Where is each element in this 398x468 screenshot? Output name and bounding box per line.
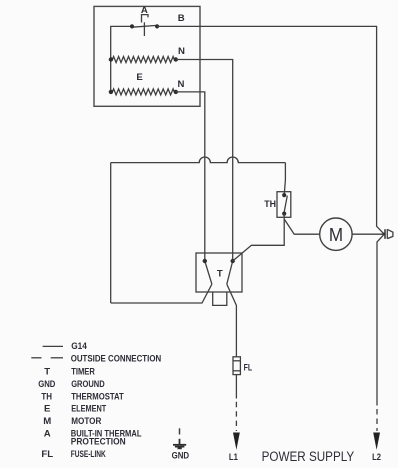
svg-text:G14: G14 [71,341,87,352]
svg-text:THERMOSTAT: THERMOSTAT [71,391,124,402]
wire: L2 dashed outside connection [376,409,378,431]
ground connection dashed stub [179,428,181,434]
wire: TH bottom to timer right contact [233,214,285,261]
ground symbol [173,439,186,449]
thermal switch A (built-in thermal protection) [132,15,157,36]
node: TH top contact [282,193,286,197]
node: switch left contact [130,24,134,28]
wire: timer right blade to fuse-link [227,284,237,357]
connector plug to L2 [383,229,393,239]
svg-text:FL: FL [244,362,253,373]
node: timer left contact [203,259,207,263]
wire: N1 to timer right contact [176,60,233,262]
timer left blade [205,261,212,284]
svg-text:T: T [44,366,50,377]
terminal arrow L1 [233,433,240,450]
wire: B to L2 drop and connector [157,26,384,234]
wire: connector down to L2 [377,234,384,405]
svg-text:E: E [44,404,51,415]
node: N2 right [174,90,178,94]
timer tab [213,292,227,305]
svg-text:FUSE-LINK: FUSE-LINK [71,449,106,460]
svg-text:B: B [178,13,185,24]
node: timer right contact [231,259,235,263]
wire: below fuse-link [235,375,237,399]
svg-text:N: N [178,46,185,57]
svg-text:T: T [217,269,223,280]
svg-text:TH: TH [264,199,276,210]
element N2 (lower heating element E) [111,89,176,95]
thermostat blade [284,196,287,214]
svg-text:M: M [329,224,343,245]
wire: L1 dashed outside connection [235,402,237,431]
svg-text:TIMER: TIMER [71,366,95,377]
node: switch right contact (B) [155,24,159,28]
terminal arrow L2 [373,433,380,450]
element N1 (upper heating element) [111,57,176,63]
motor M [320,218,352,250]
svg-text:OUTSIDE CONNECTION: OUTSIDE CONNECTION [71,354,162,365]
wire: motor to connector [352,233,384,235]
svg-text:E: E [136,72,143,83]
svg-text:A: A [44,428,51,439]
node: N1 left [109,57,113,61]
node: N2 left [109,90,113,94]
wire: TH bottom to motor [285,220,320,235]
svg-text:GROUND: GROUND [71,379,105,390]
legend dashed line sample [31,357,63,359]
svg-text:M: M [43,416,51,427]
legend solid line sample G14 [43,345,63,347]
svg-text:ELEMENT: ELEMENT [71,404,106,415]
svg-text:A: A [141,5,148,16]
timer right blade [227,261,233,284]
wire: frame loop right edge to thermostat [284,163,285,196]
thermostat TH box [277,192,291,218]
fuse-link FL [233,357,240,375]
svg-text:POWER SUPPLY: POWER SUPPLY [262,449,355,464]
svg-text:GND: GND [38,379,55,390]
wire: frame loop top edge with crossover hops [111,157,286,163]
wire: N2 to timer left contact [176,92,205,261]
wire: frame loop left edge [110,163,112,303]
svg-text:GND: GND [172,450,190,461]
wire: left rail inside housing [111,26,132,92]
svg-text:MOTOR: MOTOR [71,416,101,427]
wire: frame loop bottom edge [111,284,212,303]
enclosure box (element housing) [94,6,200,106]
svg-text:FL: FL [41,449,53,460]
svg-text:PROTECTION: PROTECTION [71,436,126,447]
node: TH bottom contact [282,212,286,216]
svg-text:L1: L1 [229,452,239,463]
svg-text:TH: TH [41,391,52,402]
node: N1 right [174,57,178,61]
svg-text:N: N [178,79,185,90]
svg-text:L2: L2 [372,452,381,463]
timer T box [196,253,242,292]
